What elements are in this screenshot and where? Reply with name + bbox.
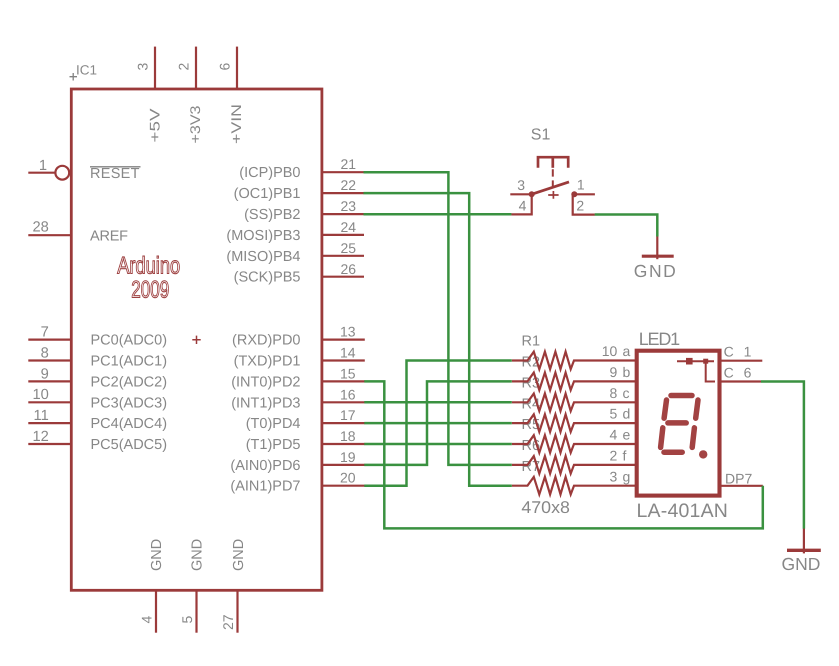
LED1 digit 8 segment bottom <box>664 449 682 455</box>
switch S1 pin 1 stub <box>574 193 595 195</box>
svg-text:LA-401AN: LA-401AN <box>637 500 728 522</box>
svg-text:4: 4 <box>139 616 155 624</box>
svg-text:c: c <box>623 385 630 401</box>
pin 1 RESET wire <box>28 172 55 174</box>
pin 19 PD6 wire <box>322 464 365 466</box>
svg-text:11: 11 <box>34 408 49 424</box>
pin 25 PB4 wire <box>322 255 364 257</box>
pin 16 PD3 wire <box>322 401 365 403</box>
svg-text:22: 22 <box>341 177 357 193</box>
LED1 common anode internal bar <box>677 360 714 362</box>
svg-text:25: 25 <box>341 240 357 256</box>
switch S1 actuator cross <box>548 191 558 199</box>
IC IC1 Arduino 2009 main body <box>71 89 322 590</box>
svg-text:3: 3 <box>610 468 618 484</box>
svg-text:GND: GND <box>231 539 247 571</box>
wire net pin21 to resistor R6 (segment f) <box>364 172 512 465</box>
IC1 origin cross <box>70 73 78 81</box>
svg-text:9: 9 <box>610 364 618 380</box>
svg-text:1: 1 <box>577 177 585 193</box>
pin 10 PC3 wire <box>28 401 70 403</box>
svg-text:S1: S1 <box>531 127 551 144</box>
svg-text:R1: R1 <box>522 334 541 350</box>
svg-text:10: 10 <box>32 387 48 403</box>
LED1 digit 8 segment middle <box>668 420 686 426</box>
resistor R1 (segment a row) <box>512 352 638 370</box>
pin 9 PC2 wire <box>28 380 70 382</box>
svg-text:21: 21 <box>341 156 357 172</box>
pin 27 GND bottom wire <box>236 589 238 633</box>
resistor R7 (segment g row) <box>512 477 638 495</box>
wire net pin20 to resistor R1 (segment a) <box>364 361 512 486</box>
wire net switch S1 pin 2 to GND <box>595 215 658 237</box>
pin 4 GND bottom wire <box>155 589 157 633</box>
svg-text:d: d <box>623 406 631 422</box>
svg-text:e: e <box>623 427 631 443</box>
svg-text:PC3(ADC3): PC3(ADC3) <box>91 395 168 411</box>
LED1 internal junction square large <box>686 358 693 365</box>
svg-text:+3V3: +3V3 <box>187 105 203 143</box>
svg-text:1: 1 <box>744 344 752 360</box>
pin 8 PC1 wire <box>28 359 70 361</box>
switch S1 actuator bracket <box>538 157 568 168</box>
svg-text:(SS)PB2: (SS)PB2 <box>244 207 300 223</box>
svg-text:AREF: AREF <box>90 229 128 245</box>
svg-text:g: g <box>623 468 631 484</box>
svg-text:C: C <box>724 344 734 360</box>
svg-text:PC1(ADC1): PC1(ADC1) <box>91 354 168 370</box>
LED1 pin DP7 stub <box>721 485 763 487</box>
ground GND below S1: bar <box>642 255 674 258</box>
wire net LED1 C6 to GND right <box>761 382 804 529</box>
pin 13 PD0 wire <box>322 339 365 341</box>
svg-text:5: 5 <box>610 406 618 422</box>
svg-text:GND: GND <box>634 261 676 281</box>
svg-text:470x8: 470x8 <box>521 498 570 517</box>
wire net pin18 to resistor R5 (segment e) <box>364 443 512 446</box>
pin 3 (+5V) top wire <box>154 47 156 90</box>
switch S1 actuator dashed link <box>552 169 554 190</box>
svg-text:6: 6 <box>744 364 752 380</box>
svg-text:4: 4 <box>519 197 527 213</box>
svg-text:16: 16 <box>340 386 356 402</box>
LED1 internal junction square small <box>703 359 708 364</box>
switch S1 pin 2 stub <box>573 194 595 214</box>
svg-text:18: 18 <box>340 428 356 444</box>
svg-text:C: C <box>724 364 734 380</box>
resistor R6 (segment f row) <box>512 456 638 474</box>
wire net pin22 to resistor R7 (segment g) <box>364 193 512 486</box>
LED1 digit 8 segment top <box>671 393 692 399</box>
pin 24 PB3 wire <box>322 234 364 236</box>
svg-text:(T1)PD5: (T1)PD5 <box>246 437 301 453</box>
switch S1 lever <box>532 182 570 194</box>
svg-text:2: 2 <box>576 198 584 214</box>
svg-text:24: 24 <box>341 219 357 235</box>
svg-text:+VIN: +VIN <box>228 104 244 144</box>
pin 12 PC5 wire <box>28 443 70 445</box>
svg-text:19: 19 <box>340 449 356 465</box>
pin 21 PB0 wire <box>322 171 364 173</box>
IC internal value origin cross <box>192 336 200 344</box>
svg-text:GND: GND <box>782 554 821 574</box>
svg-text:27: 27 <box>220 614 236 630</box>
svg-text:PC0(ADC0): PC0(ADC0) <box>91 333 168 349</box>
LED1 pin C 6 stub <box>721 380 761 382</box>
svg-text:(SCK)PB5: (SCK)PB5 <box>234 270 301 286</box>
svg-text:Arduino: Arduino <box>117 253 180 280</box>
resistor R3 (segment c row) <box>512 394 638 412</box>
LED1 digit 8 segment bottom-right <box>692 428 694 448</box>
LED1 digit 8 segment bottom-left <box>661 428 663 448</box>
svg-text:(OC1)PB1: (OC1)PB1 <box>234 186 301 202</box>
svg-text:13: 13 <box>340 324 356 340</box>
svg-text:20: 20 <box>340 470 356 486</box>
svg-text:(TXD)PD1: (TXD)PD1 <box>234 354 301 370</box>
pin 14 PD1 wire <box>322 359 365 361</box>
svg-text:7: 7 <box>41 325 49 341</box>
svg-text:(MOSI)PB3: (MOSI)PB3 <box>226 228 300 244</box>
svg-text:(RXD)PD0: (RXD)PD0 <box>232 333 300 349</box>
pin 22 PB1 wire <box>322 192 364 194</box>
svg-text:PC5(ADC5): PC5(ADC5) <box>91 437 168 453</box>
switch S1 pin 4 stub <box>511 194 532 214</box>
svg-text:(INT0)PD2: (INT0)PD2 <box>231 374 300 390</box>
svg-text:8: 8 <box>41 345 49 361</box>
LED1 digit 8 segment top-right <box>696 400 698 418</box>
svg-text:12: 12 <box>32 429 48 445</box>
wire net pin23 to switch S1 pin 4 <box>364 213 512 216</box>
ground GND right: stub <box>803 528 805 553</box>
pin 15 PD2 wire <box>322 380 365 382</box>
svg-text:2009: 2009 <box>131 277 169 304</box>
svg-text:LED1: LED1 <box>639 329 681 349</box>
svg-text:(ICP)PB0: (ICP)PB0 <box>239 165 300 181</box>
pin 28 AREF wire <box>28 234 70 236</box>
ground GND below S1: stub <box>656 236 658 259</box>
pin 11 PC4 wire <box>28 422 70 424</box>
svg-text:a: a <box>623 343 631 359</box>
pin 6 (+VIN) top wire <box>236 47 238 90</box>
svg-text:(MISO)PB4: (MISO)PB4 <box>226 249 300 265</box>
svg-text:15: 15 <box>340 365 356 381</box>
svg-text:10: 10 <box>602 343 618 359</box>
svg-text:PC2(ADC2): PC2(ADC2) <box>91 374 168 390</box>
switch S1 contact dot left <box>529 191 535 197</box>
wire net pin16 to resistor R3 (segment c) <box>364 401 512 404</box>
svg-text:8: 8 <box>610 385 618 401</box>
svg-text:GND: GND <box>149 539 165 571</box>
switch S1 contact dot right <box>571 191 577 197</box>
svg-text:IC1: IC1 <box>76 63 97 78</box>
pin 7 PC0 wire <box>28 339 70 341</box>
svg-text:+5V: +5V <box>147 108 163 143</box>
LED1 internal link to C6 <box>706 361 715 381</box>
svg-text:17: 17 <box>340 407 356 423</box>
pin 5 GND bottom wire <box>195 589 197 633</box>
pin 26 PB5 wire <box>322 276 364 278</box>
svg-text:3: 3 <box>517 177 525 193</box>
LED1 digit 8 segment top-left <box>664 400 666 418</box>
svg-text:(AIN0)PD6: (AIN0)PD6 <box>230 458 300 474</box>
svg-text:(AIN1)PD7: (AIN1)PD7 <box>230 479 300 495</box>
wire net pin19 to resistor R2 (segment b) <box>364 381 512 465</box>
svg-text:5: 5 <box>179 616 195 624</box>
svg-text:26: 26 <box>341 261 357 277</box>
switch S1 actuator center stem <box>551 157 554 168</box>
svg-text:b: b <box>623 364 631 380</box>
svg-text:f: f <box>623 447 627 463</box>
svg-text:RESET: RESET <box>90 166 140 182</box>
svg-text:(T0)PD4: (T0)PD4 <box>246 416 301 432</box>
resistor R2 (segment b row) <box>512 373 638 391</box>
svg-text:PC4(ADC4): PC4(ADC4) <box>91 416 168 432</box>
svg-text:2: 2 <box>610 447 618 463</box>
svg-text:4: 4 <box>610 427 618 443</box>
wire net pin17 to resistor R4 (segment d) <box>364 422 512 425</box>
pin 20 PD7 wire <box>322 485 365 487</box>
svg-text:9: 9 <box>41 366 49 382</box>
LED display LED1 body <box>637 351 720 496</box>
pin 2 (+3V3) top wire <box>195 47 197 90</box>
pin 17 PD4 wire <box>322 422 365 424</box>
svg-text:1: 1 <box>39 158 47 174</box>
svg-text:14: 14 <box>340 345 356 361</box>
LED1 pin C 1 stub <box>721 360 762 362</box>
resistor R4 (segment d row) <box>512 414 638 432</box>
switch S1 pin 3 stub <box>510 193 531 195</box>
pin 1 inversion circle <box>55 166 69 180</box>
wire net pin15 to LED1 DP <box>364 381 763 528</box>
svg-text:2: 2 <box>176 63 192 71</box>
svg-text:6: 6 <box>217 63 233 71</box>
svg-text:23: 23 <box>341 198 357 214</box>
svg-text:(INT1)PD3: (INT1)PD3 <box>231 395 300 411</box>
svg-text:DP7: DP7 <box>725 471 752 487</box>
pin 18 PD5 wire <box>322 443 365 445</box>
ground GND right: bar <box>787 549 821 552</box>
svg-text:3: 3 <box>135 63 151 71</box>
svg-text:GND: GND <box>190 539 206 571</box>
LED1 decimal point <box>699 450 707 458</box>
resistor R5 (segment e row) <box>512 435 638 453</box>
pin 23 PB2 wire <box>322 213 364 215</box>
svg-text:28: 28 <box>32 220 48 236</box>
